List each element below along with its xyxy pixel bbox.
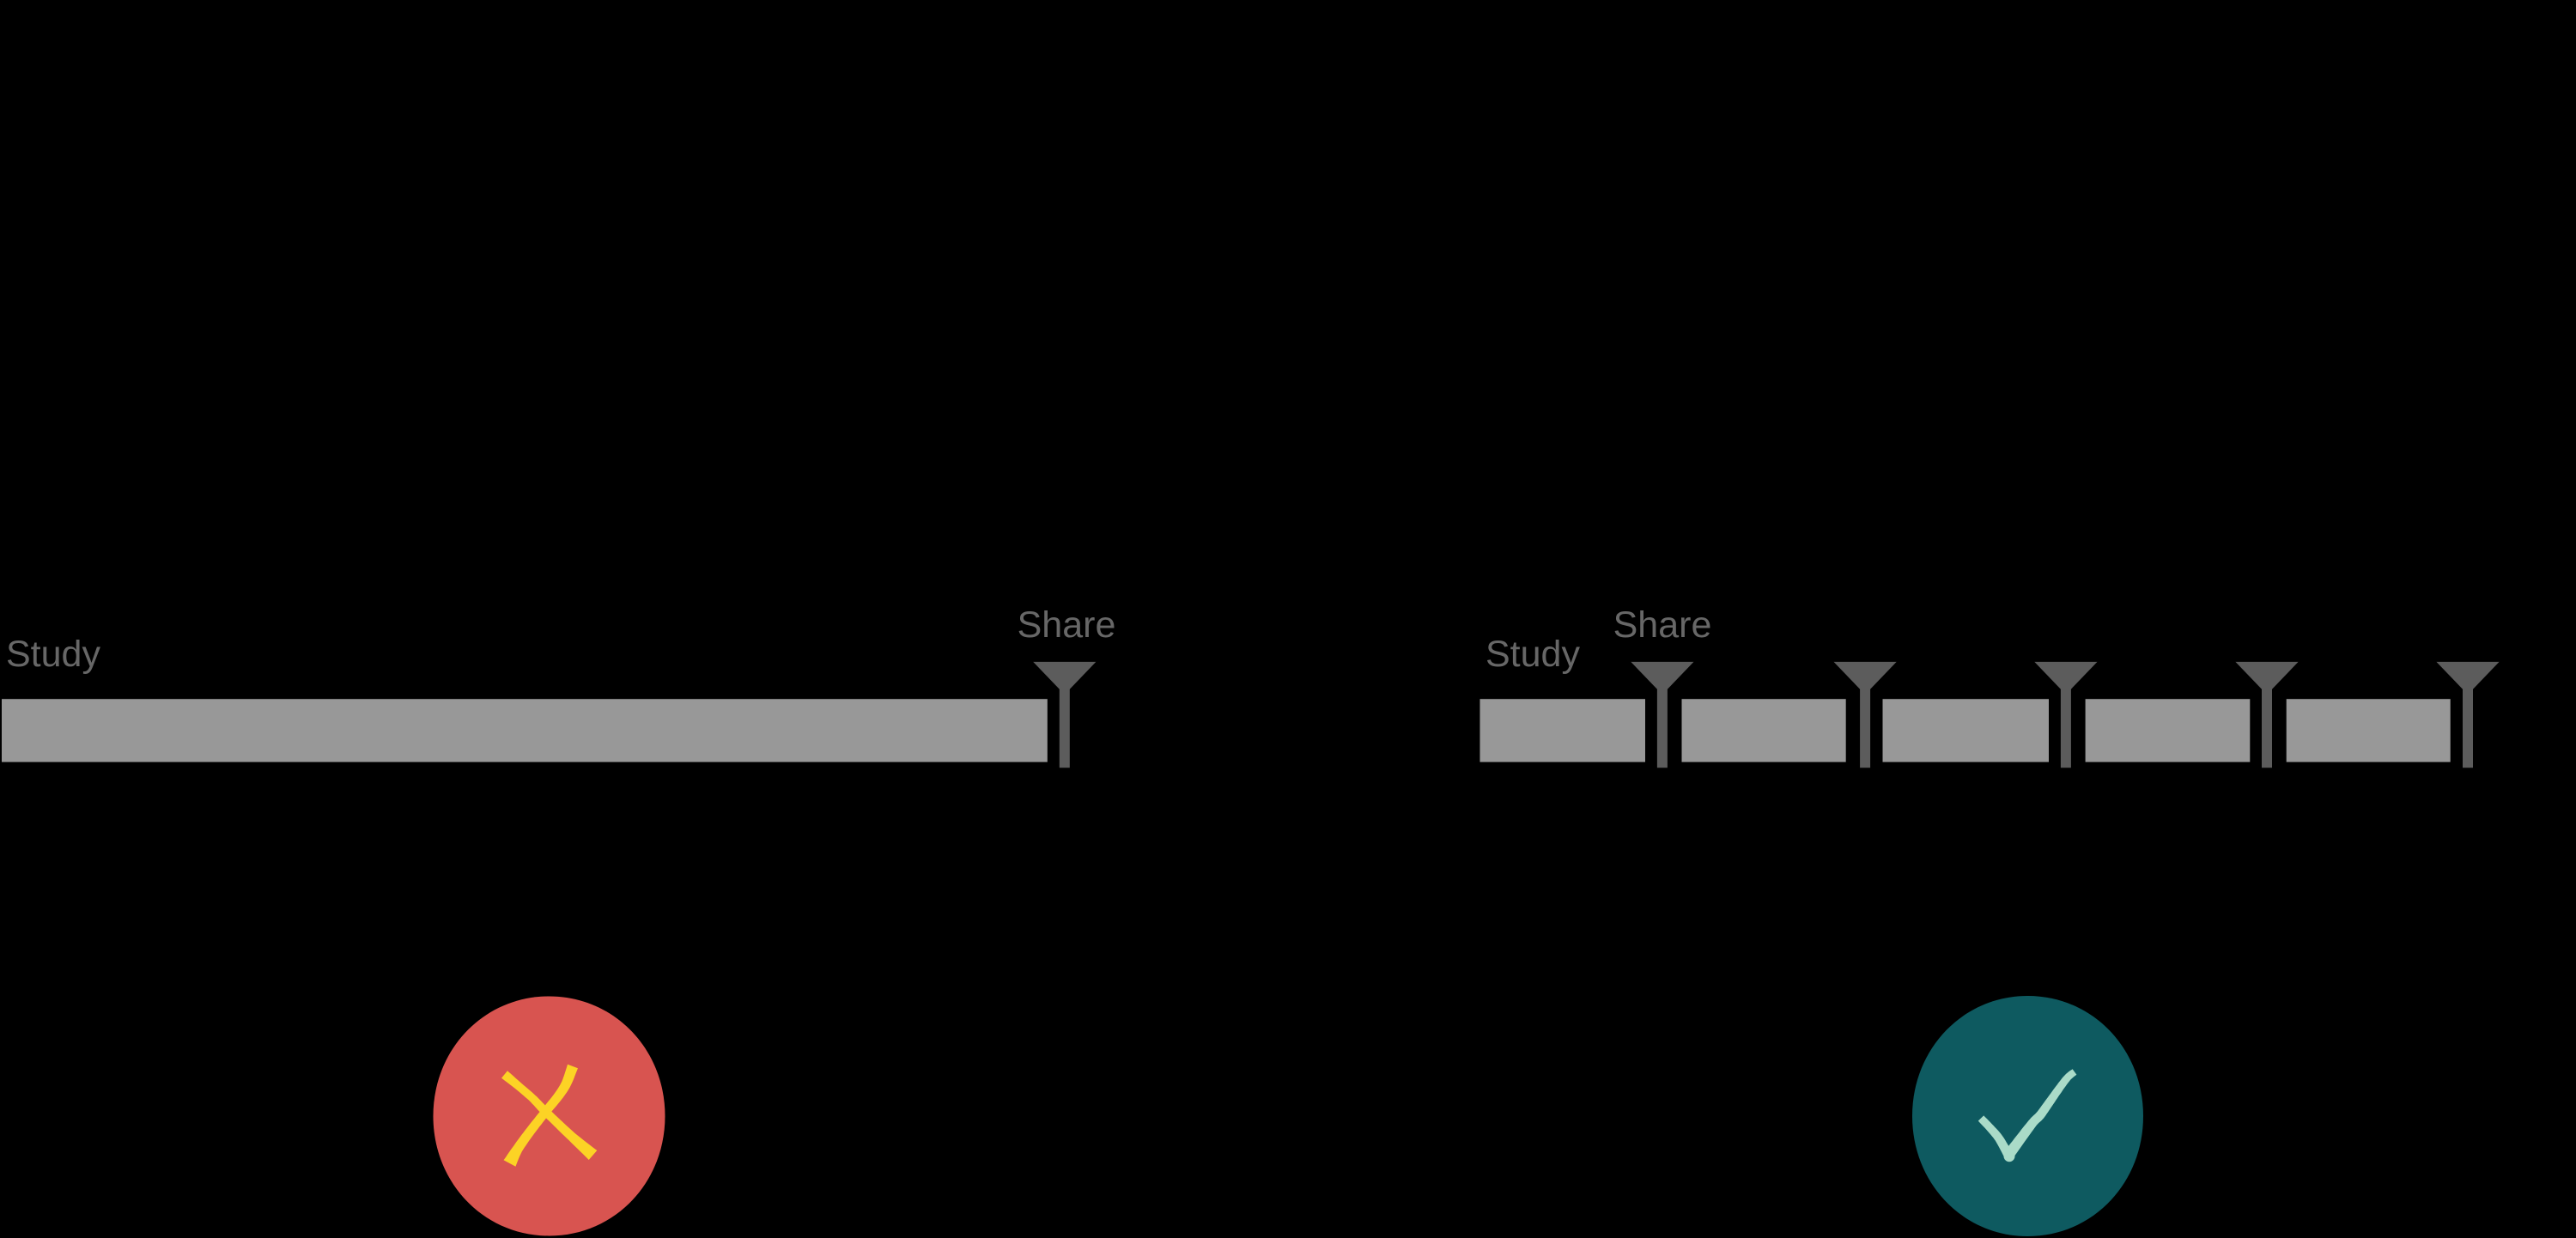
svg-text:Study: Study xyxy=(1485,634,1580,675)
svg-text:Study: Study xyxy=(6,634,100,675)
svg-text:Share: Share xyxy=(1613,604,1712,646)
svg-text:Share: Share xyxy=(1018,604,1116,646)
